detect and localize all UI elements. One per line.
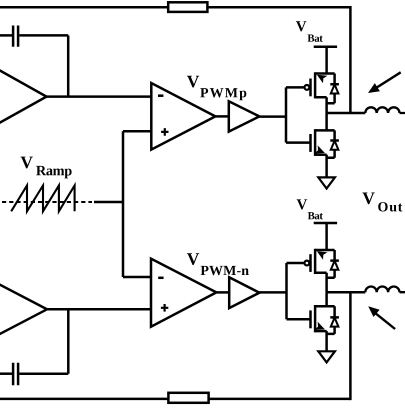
node gate bus bottom xyxy=(285,263,288,319)
transistor M2 NMOS drain lead xyxy=(315,113,335,130)
transistor M3 PMOS source arrow xyxy=(315,247,328,259)
svg-text:V: V xyxy=(187,71,200,91)
transistor M1 PMOS source lead xyxy=(315,72,335,75)
svg-text:Out: Out xyxy=(377,200,403,215)
transistor M3 PMOS source lead xyxy=(315,249,335,252)
transistor M2 NMOS channel bar xyxy=(314,129,317,156)
capacitor C-int-top xyxy=(13,26,18,47)
inductor L1 xyxy=(365,107,405,113)
transistor M3 PMOS gate circle xyxy=(305,261,310,266)
transistor M1 PMOS source arrow xyxy=(315,71,328,83)
transistor M2 NMOS gate lead xyxy=(286,141,311,144)
wire top feedback right xyxy=(207,6,350,9)
wire bottom feedback left xyxy=(0,398,168,401)
diode D2 body xyxy=(327,130,339,157)
transistor M1 PMOS gate circle xyxy=(305,85,310,90)
wire buffer2 to gates xyxy=(259,291,286,294)
wire cap feedback rise bottom xyxy=(67,309,70,373)
node gate bus top xyxy=(285,87,288,142)
comparator U2 xyxy=(151,259,216,327)
comparator U2 plus sign xyxy=(161,304,168,312)
resistor R-fb-bottom xyxy=(168,393,208,403)
wire M2 source to ground xyxy=(325,155,328,178)
comparator U1 plus sign xyxy=(161,128,168,136)
transistor M4 NMOS channel bar xyxy=(314,305,317,332)
buffer B2 xyxy=(229,277,259,308)
buffer B1 xyxy=(229,101,260,131)
transistor M4 NMOS gate lead xyxy=(287,318,311,321)
wire VBat to M1 xyxy=(325,47,328,74)
transistor M3 PMOS drain lead xyxy=(315,273,327,292)
wire opamp2 output xyxy=(47,308,151,311)
svg-text:V: V xyxy=(20,152,33,172)
transistor M3 PMOS gate bar xyxy=(309,254,312,272)
transistor M4 NMOS gate bar xyxy=(309,310,312,328)
wire cap-out bottom xyxy=(19,372,68,375)
wire bus to comp1 plus xyxy=(123,130,151,133)
svg-text:V: V xyxy=(362,188,375,208)
inductor L2 xyxy=(365,287,405,293)
annotation arrow top xyxy=(375,72,401,89)
ground top stage xyxy=(318,177,335,188)
node SWp xyxy=(327,112,366,115)
wire cap-in bottom xyxy=(0,372,12,375)
comparator U1 xyxy=(151,83,215,150)
transistor M2 NMOS source lead xyxy=(315,153,327,156)
wire bottom feedback right xyxy=(209,398,351,401)
wire bus to comp2 minus xyxy=(123,276,151,279)
wire cap feedback drop top xyxy=(67,35,70,96)
diode D3 body xyxy=(327,250,339,278)
wire bottom feedback rise xyxy=(349,292,352,400)
wire M4 source to ground xyxy=(325,331,328,351)
transistor M1 PMOS gate lead xyxy=(286,86,305,89)
svg-text:V: V xyxy=(296,197,307,213)
svg-text:Ramp: Ramp xyxy=(36,163,72,179)
transistor M2 NMOS gate bar xyxy=(309,134,312,152)
svg-text:PWM-n: PWM-n xyxy=(200,264,249,279)
power VBat bar bottom xyxy=(314,222,337,225)
wire cap-out top xyxy=(19,34,68,37)
op-amp A1 xyxy=(0,62,47,131)
transistor M1 PMOS gate bar xyxy=(309,79,312,97)
svg-text:V: V xyxy=(296,19,307,35)
wire top feedback left xyxy=(0,6,168,9)
comparator U1 minus sign xyxy=(158,94,163,97)
diode D1 body xyxy=(327,74,339,104)
transistor M3 PMOS channel bar xyxy=(314,249,317,274)
transistor M3 PMOS gate lead xyxy=(287,262,305,265)
wire VBat to M3 xyxy=(325,223,328,250)
svg-text:Bat: Bat xyxy=(307,33,323,45)
resistor R-fb-top xyxy=(168,2,207,12)
wire buffer1 to gates xyxy=(259,115,286,118)
transistor M4 NMOS drain lead xyxy=(315,292,335,306)
svg-text:PWMp: PWMp xyxy=(200,86,248,101)
ground bottom stage xyxy=(318,351,335,362)
wire comp1 to buffer1 xyxy=(215,115,228,118)
op-amp A2 xyxy=(0,277,47,342)
svg-text:Bat: Bat xyxy=(308,210,324,222)
wire top feedback drop xyxy=(349,6,352,113)
power VBat bar top xyxy=(314,45,337,48)
sawtooth V_Ramp waveform dashed axis xyxy=(2,201,92,203)
transistor M1 PMOS drain lead xyxy=(315,97,327,113)
svg-text:V: V xyxy=(187,249,200,269)
node SWn xyxy=(327,291,366,294)
transistor M2 NMOS source arrow xyxy=(314,145,326,157)
wire cap-in top xyxy=(0,34,12,37)
transistor M4 NMOS source arrow xyxy=(314,322,326,334)
wire comp2 to buffer2 xyxy=(216,291,229,294)
capacitor C-int-bottom xyxy=(13,363,18,385)
transistor M1 PMOS channel bar xyxy=(314,72,317,98)
transistor M4 NMOS source lead xyxy=(315,330,327,333)
wire ramp to bus xyxy=(94,201,123,204)
annotation arrow bottom xyxy=(375,313,395,329)
node ramp bus xyxy=(122,131,125,277)
comparator U2 minus sign xyxy=(158,277,163,280)
sawtooth V_Ramp waveform xyxy=(11,186,74,212)
wire opamp1 output xyxy=(47,95,152,98)
diode D4 body xyxy=(327,306,339,334)
